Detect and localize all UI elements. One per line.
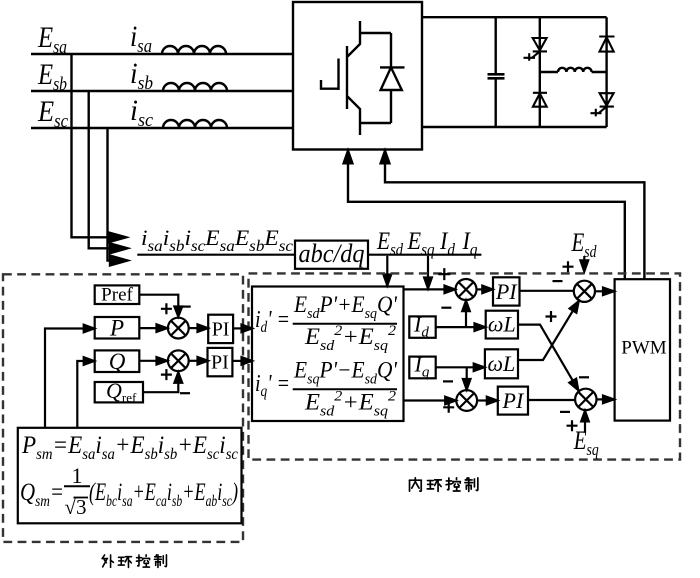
wire pwm feedback B to converter [385,163,644,279]
svg-text:1: 1 [72,463,83,488]
wire tap phase c to abc/dq [108,128,111,261]
svg-text:ωL: ωL [488,312,516,337]
wire P to S1 [139,327,156,329]
label inner loop caption 内环控制 [410,478,478,492]
svg-text:iq' =: iq' = [255,371,290,400]
svg-text:ωL: ωL [488,351,516,376]
outer loop dashed box [3,274,243,542]
wire Esq arrow into J4 [584,421,586,431]
wire Q to S2 [139,360,156,362]
formula block Psm Qsm [18,428,242,524]
wire Iq to wL2 [436,366,474,368]
wire S1 to PI [189,327,198,329]
wire tap phase b to abc/dq [89,91,110,248]
wire dc mid link [540,71,607,73]
summing junction S2 [168,350,189,371]
fraction bar sqrt3 [64,485,90,487]
wire bridge right leg [605,17,607,127]
wire dc bus bottom [422,126,607,128]
wire J2 to PWM [595,290,603,292]
wire PI1 out to id formula [233,327,241,329]
capacitor C1 [495,17,497,127]
formula block id iq [252,287,404,422]
wire cross wL2 to J2 [518,311,573,360]
sign plus S2 [161,369,172,380]
wire J3 to PI [477,399,487,401]
wire S2 to PI [189,360,198,362]
wire PI2 out to id formula [232,360,241,362]
svg-text:P: P [109,316,124,341]
wire Pref to S1 [139,295,178,307]
wire cross wL1 to J4 [518,325,573,381]
sign minus J2 left [553,280,563,282]
sign minus S1 [181,306,191,308]
wire phase a [31,53,293,55]
label outer loop caption 外环控制 [102,555,166,568]
svg-text:PI: PI [502,388,525,413]
block PI outer 2 [208,348,233,376]
svg-text:PI: PI [212,318,230,340]
wire J4 to PWM [597,398,604,400]
wire pwm feedback A to converter [348,163,625,279]
wire Id to wL1 [436,326,475,328]
summing junction J2 [574,281,595,302]
block wL1 [486,311,518,339]
fraction bar id [293,323,397,325]
sign minus J3 [443,380,453,382]
diode D1 (antiparallel) [380,33,405,123]
wire phase b [31,90,293,92]
sign minus J1 [441,307,451,309]
converter block U1 [293,2,422,150]
wire Esd arrow into J2 [583,256,585,260]
wire J1 to PI [477,288,483,290]
inductor Lc [163,120,227,128]
block P [95,317,140,339]
inner loop dashed box [249,273,681,459]
sign plus J4 bottom [567,420,578,431]
block PI outer 1 [208,315,233,343]
wire phase c [31,127,293,129]
sign plus J2 diag [546,311,557,322]
diode D3 [533,93,547,107]
inductor La [162,46,226,54]
wire id' to J1 [404,288,445,290]
wire Iq tee down to J3 [466,367,468,379]
wire tap phase a to abc/dq [72,54,109,237]
wire Qsm to Q [77,361,83,428]
block Pref [95,285,140,304]
svg-text:√3: √3 [65,495,87,519]
wire Qref to S2 [143,383,178,392]
sign minus J4 top [579,376,589,378]
wire signal underline dq side [368,254,481,256]
sign plus J2 top [563,261,574,272]
diode D2 [599,37,614,52]
thyristor T2 [591,93,614,116]
summing junction J4 [575,389,596,410]
block PI inner 2 [498,387,528,415]
wire Esd down to id formula box [386,256,388,275]
wire PI to J4 [528,399,575,401]
sign plus J3 [443,402,454,413]
transistor Q1 (IGBT) [321,21,391,135]
wire bridge left leg [539,17,541,127]
wire Psm to P [45,329,84,428]
svg-text:Pref: Pref [101,285,133,306]
sign minus J4 left [560,411,570,413]
block Qref [95,382,143,402]
abc/dq block [295,241,368,269]
block Q [95,350,140,372]
svg-text:PI: PI [495,279,518,304]
fraction bar iq [293,388,397,390]
block PI inner 1 [493,277,520,305]
wire Esq down to id line [427,256,429,278]
block Iq [409,357,435,379]
svg-text:PWM: PWM [621,338,667,359]
wire iq' to J3 [404,399,446,401]
svg-text:id' =: id' = [255,307,290,336]
wire Id tee up to J1 [465,311,467,327]
summing junction J3 [456,390,477,411]
svg-text:abc/dq: abc/dq [299,239,365,268]
wire signal underline abc side [137,254,295,256]
block wL2 [485,349,518,378]
block Id [409,316,435,337]
sign minus S2 [180,392,190,394]
summing junction S1 [168,318,189,339]
inductor L2 [558,68,592,72]
sign plus J1 [438,268,450,280]
svg-text:Psm=Esaisa+Esbisb+Escisc: Psm=Esaisa+Esbisb+Escisc [21,432,238,463]
wire dc bus top [422,16,607,18]
svg-text:PI: PI [211,352,229,374]
block PWM [615,279,670,420]
sign plus S1 [161,303,172,314]
summing junction J1 [456,279,477,300]
svg-text:Q: Q [109,349,126,374]
thyristor T1 [524,38,548,61]
inductor Lb [163,83,227,91]
wire PI to J2 [520,290,575,292]
